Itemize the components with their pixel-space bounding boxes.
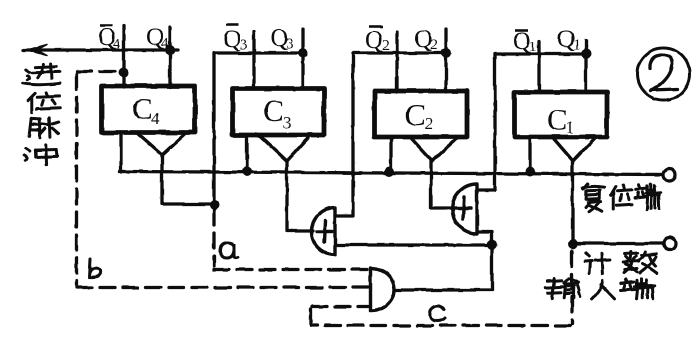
text: 位 (carry pulse label char 2) bbox=[28, 92, 61, 112]
flip-flop C1 box bbox=[515, 92, 608, 137]
wire: C1 clock lead to count node bbox=[571, 161, 574, 244]
label C1 bbox=[547, 102, 575, 137]
svg-text:2: 2 bbox=[382, 38, 390, 54]
label c bbox=[430, 306, 445, 321]
wire: Q2 output stub bbox=[444, 29, 447, 92]
flip-flop C2 box bbox=[375, 91, 468, 137]
text: 入 (count input char 4) bbox=[592, 281, 614, 299]
junction: Q2 output node bbox=[441, 48, 451, 58]
junction: Q4bar to feedback b bbox=[119, 68, 129, 78]
junction: node a (C4 clock / Q3 / dashed a) bbox=[210, 200, 220, 210]
wire: C3 clock lead from G1 output bbox=[287, 161, 313, 231]
junction: C3 reset on rail bbox=[242, 167, 252, 177]
label Q4 bbox=[146, 24, 169, 52]
svg-text:C: C bbox=[132, 91, 153, 126]
svg-text:C: C bbox=[547, 102, 568, 137]
text: 进 (carry pulse label char 1) bbox=[23, 64, 61, 85]
wire: Q3 output stub bbox=[301, 29, 304, 89]
text: 数 (count input char 2) bbox=[623, 252, 656, 274]
text: 端 (reset terminal char 3) bbox=[635, 184, 660, 209]
wire: Q2bar output stub bbox=[395, 32, 398, 92]
wire: count input lead bbox=[573, 242, 662, 245]
wire: Q3bar output stub bbox=[252, 31, 255, 89]
clock input triangle C2 bbox=[411, 138, 456, 161]
text: 位 (reset terminal char 2) bbox=[611, 186, 633, 210]
svg-text:C: C bbox=[263, 93, 284, 128]
wire: G3 output net to G1 and G2 inputs bbox=[336, 232, 492, 290]
junction: G3 output node bbox=[487, 240, 497, 250]
label Q1 bbox=[557, 26, 581, 53]
or-gate G1 (feeds C3 clock) bbox=[312, 208, 336, 255]
label Q3 bbox=[270, 25, 294, 52]
wire: C2 reset lead bbox=[389, 137, 392, 172]
text: 脉 (carry pulse label char 3) bbox=[29, 118, 59, 138]
text: 端 (count input char 5) bbox=[621, 279, 655, 299]
terminal: count input circle bbox=[664, 238, 676, 250]
text: 复 (reset terminal char 1) bbox=[583, 184, 604, 212]
svg-text:2: 2 bbox=[430, 37, 438, 53]
svg-text:4: 4 bbox=[113, 36, 121, 52]
junction: C1 reset on rail bbox=[525, 167, 535, 177]
dashed wire a: from node a to G3 input bbox=[214, 210, 368, 270]
junction: Q3 output node bbox=[298, 48, 308, 58]
wire: Q4bar output stub bbox=[122, 25, 125, 87]
label C4 bbox=[132, 91, 160, 128]
wire: Q2 to G1 input bbox=[336, 53, 446, 216]
text: 冲 (carry pulse label char 4) bbox=[24, 145, 57, 165]
label C2 bbox=[405, 97, 434, 133]
svg-text:Q: Q bbox=[365, 27, 383, 54]
wire: C3 reset lead bbox=[245, 135, 248, 172]
arrowhead of carry pulse output bbox=[27, 45, 47, 56]
label b bbox=[89, 259, 100, 277]
label Q3bar bbox=[223, 25, 248, 54]
wire: Q3 to C4 clock bbox=[214, 53, 303, 205]
dashed wire c: from count node to G3 input bbox=[311, 251, 573, 326]
svg-text:4: 4 bbox=[161, 36, 169, 52]
svg-text:Q: Q bbox=[223, 26, 241, 53]
wire: carry pulse output rail bbox=[23, 48, 178, 51]
wire: Q4 output bbox=[168, 27, 171, 87]
svg-text:3: 3 bbox=[283, 113, 292, 132]
or-gate G2 (feeds C2 clock) bbox=[452, 184, 477, 234]
svg-text:4: 4 bbox=[151, 109, 160, 128]
wire: Q1 to G2 input bbox=[478, 54, 586, 190]
terminal: reset output circle bbox=[664, 169, 676, 181]
dashed wire b: from Q4bar junction to G3 input bbox=[77, 72, 369, 288]
junction: Q1 output node bbox=[581, 49, 591, 59]
junction: Q4 on carry rail bbox=[165, 45, 175, 55]
figure number circled 2 bbox=[638, 48, 690, 100]
junction: C2 reset on rail bbox=[385, 167, 395, 177]
svg-text:3: 3 bbox=[240, 37, 248, 53]
text: 输 (count input char 3) bbox=[546, 278, 580, 298]
label a bbox=[220, 243, 238, 258]
label Q1bar bbox=[513, 28, 537, 55]
and-gate G3 (feedback gate) bbox=[371, 268, 395, 311]
label C3 bbox=[263, 93, 292, 132]
wire: C2 clock lead from G2 output bbox=[431, 161, 453, 208]
text: 计 (count input char 1) bbox=[585, 253, 611, 274]
wire: C1 reset lead bbox=[528, 137, 531, 172]
svg-text:1: 1 bbox=[573, 37, 581, 53]
label Q2 bbox=[414, 26, 438, 53]
svg-text:3: 3 bbox=[286, 36, 294, 52]
flip-flop C3 box bbox=[233, 89, 325, 136]
svg-text:C: C bbox=[405, 97, 426, 132]
wire: Q1bar output stub bbox=[537, 41, 540, 92]
wire: Q1 output stub bbox=[584, 40, 587, 92]
clock input triangle C1 bbox=[554, 138, 595, 161]
junction: count input node bbox=[568, 239, 578, 249]
svg-text:1: 1 bbox=[566, 118, 575, 137]
clock input triangle C3 bbox=[260, 136, 308, 161]
label Q4bar bbox=[98, 24, 121, 52]
label Q2bar bbox=[365, 27, 390, 55]
svg-text:1: 1 bbox=[529, 39, 537, 55]
svg-text:2: 2 bbox=[425, 114, 434, 133]
wire: reset rail bbox=[120, 172, 663, 175]
flip-flop C4 box bbox=[102, 86, 196, 133]
clock input triangle C4 bbox=[138, 134, 185, 155]
wire: G1 top input from Q2 bbox=[335, 214, 336, 217]
wire: C4 reset lead bbox=[119, 133, 122, 172]
wire: C4 clock lead bbox=[162, 155, 213, 204]
